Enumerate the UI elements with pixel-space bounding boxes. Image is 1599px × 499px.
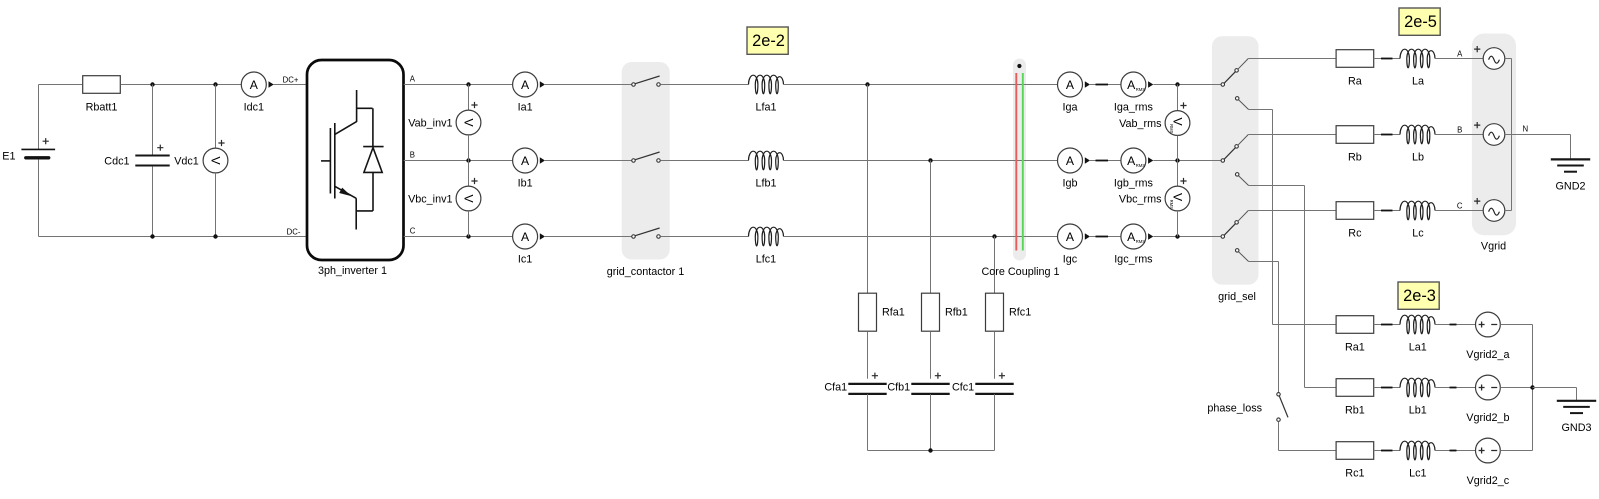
svg-text:Rbatt1: Rbatt1 <box>86 101 118 113</box>
svg-text:Lfa1: Lfa1 <box>755 101 776 113</box>
svg-text:RMS: RMS <box>1136 239 1146 244</box>
svg-text:B: B <box>410 150 415 159</box>
svg-text:Rfa1: Rfa1 <box>882 307 905 319</box>
svg-text:C: C <box>1457 202 1463 211</box>
svg-text:V: V <box>208 156 222 165</box>
svg-text:DC+: DC+ <box>283 75 299 84</box>
svg-text:RMS: RMS <box>1136 87 1146 92</box>
svg-text:Vdc1: Vdc1 <box>174 155 199 167</box>
svg-text:Igb: Igb <box>1062 177 1077 189</box>
svg-text:Vab_rms: Vab_rms <box>1119 118 1162 130</box>
svg-text:GND2: GND2 <box>1556 181 1586 193</box>
svg-text:Lc1: Lc1 <box>1409 467 1426 479</box>
svg-text:A: A <box>521 78 530 92</box>
svg-text:Vbc_inv1: Vbc_inv1 <box>408 193 452 205</box>
svg-text:GND3: GND3 <box>1562 422 1592 434</box>
svg-text:Cfc1: Cfc1 <box>952 382 974 394</box>
svg-text:RMS: RMS <box>1169 124 1174 134</box>
svg-text:Rc: Rc <box>1348 227 1362 239</box>
svg-text:Lb1: Lb1 <box>1409 404 1427 416</box>
svg-text:A: A <box>1066 230 1075 244</box>
svg-text:grid_contactor 1: grid_contactor 1 <box>607 266 684 278</box>
svg-text:A: A <box>1457 50 1463 59</box>
svg-text:Iga: Iga <box>1062 101 1077 113</box>
svg-text:Lfc1: Lfc1 <box>756 253 776 265</box>
svg-text:Ra: Ra <box>1348 75 1362 87</box>
svg-text:Rb1: Rb1 <box>1345 404 1365 416</box>
svg-text:Core Coupling 1: Core Coupling 1 <box>981 266 1059 278</box>
svg-text:V: V <box>461 194 475 203</box>
svg-text:A: A <box>410 74 416 83</box>
svg-text:Vgrid2_a: Vgrid2_a <box>1466 349 1509 361</box>
svg-text:Rfb1: Rfb1 <box>945 307 968 319</box>
svg-text:Ic1: Ic1 <box>518 253 532 265</box>
svg-text:Vgrid2_c: Vgrid2_c <box>1467 475 1510 487</box>
svg-text:Lc: Lc <box>1412 227 1424 239</box>
svg-text:phase_loss: phase_loss <box>1207 403 1262 415</box>
svg-text:2e-2: 2e-2 <box>752 32 785 50</box>
svg-text:A: A <box>250 78 259 92</box>
svg-text:Vgrid2_b: Vgrid2_b <box>1466 412 1509 424</box>
svg-text:La: La <box>1412 75 1424 87</box>
svg-text:E1: E1 <box>2 151 15 163</box>
svg-text:Idc1: Idc1 <box>244 101 264 113</box>
svg-text:Cfb1: Cfb1 <box>887 382 910 394</box>
svg-text:B: B <box>1457 126 1462 135</box>
svg-text:Rfc1: Rfc1 <box>1009 307 1031 319</box>
svg-text:Vbc_rms: Vbc_rms <box>1119 193 1162 205</box>
svg-text:C: C <box>410 226 416 235</box>
svg-text:Ia1: Ia1 <box>518 101 533 113</box>
svg-text:grid_sel: grid_sel <box>1218 291 1256 303</box>
svg-text:A: A <box>521 230 530 244</box>
svg-text:Cfa1: Cfa1 <box>824 382 847 394</box>
svg-text:Ib1: Ib1 <box>518 177 533 189</box>
svg-text:Lfb1: Lfb1 <box>755 177 776 189</box>
svg-text:Iga_rms: Iga_rms <box>1114 101 1154 113</box>
svg-text:N: N <box>1522 125 1528 134</box>
svg-text:Rb: Rb <box>1348 151 1362 163</box>
svg-text:Vgrid: Vgrid <box>1481 241 1506 253</box>
svg-text:DC-: DC- <box>287 228 301 237</box>
svg-text:Igc: Igc <box>1063 253 1078 265</box>
svg-text:Cdc1: Cdc1 <box>104 155 129 167</box>
svg-text:Vab_inv1: Vab_inv1 <box>408 117 452 129</box>
svg-text:RMS: RMS <box>1169 200 1174 210</box>
svg-text:La1: La1 <box>1409 341 1427 353</box>
svg-text:Igb_rms: Igb_rms <box>1114 177 1154 189</box>
svg-text:Ra1: Ra1 <box>1345 341 1365 353</box>
svg-text:A: A <box>1066 78 1075 92</box>
svg-text:V: V <box>461 118 475 127</box>
svg-text:3ph_inverter 1: 3ph_inverter 1 <box>318 265 387 277</box>
svg-text:A: A <box>1066 154 1075 168</box>
svg-text:RMS: RMS <box>1136 163 1146 168</box>
svg-text:Rc1: Rc1 <box>1345 467 1364 479</box>
svg-text:Igc_rms: Igc_rms <box>1114 253 1153 265</box>
svg-text:A: A <box>521 154 530 168</box>
svg-text:2e-3: 2e-3 <box>1403 287 1436 305</box>
svg-text:Lb: Lb <box>1412 151 1424 163</box>
svg-text:2e-5: 2e-5 <box>1404 13 1437 31</box>
